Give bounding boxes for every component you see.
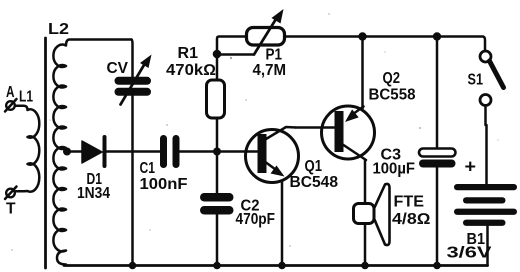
svg-text:S1: S1: [468, 72, 484, 89]
svg-text:R1: R1: [178, 45, 199, 62]
variable capacitor CV: [115, 40, 152, 266]
svg-text:100µF: 100µF: [373, 161, 416, 178]
node: C3 ground: [433, 262, 441, 270]
svg-text:CV: CV: [107, 60, 129, 77]
node: Q2 emitter rail: [358, 32, 366, 40]
battery B1: [454, 184, 517, 266]
capacitor C1: [160, 135, 213, 168]
svg-text:L1: L1: [19, 89, 33, 106]
transistor Q2: [322, 106, 375, 160]
switch S1: [480, 51, 504, 125]
node: C3 top rail: [433, 32, 441, 40]
svg-text:T: T: [6, 201, 16, 218]
svg-text:100nF: 100nF: [140, 176, 188, 193]
terminal T: [5, 187, 17, 200]
capacitor C3: [419, 37, 456, 266]
transistor Q1: [246, 127, 299, 183]
svg-text:Q1: Q1: [305, 158, 323, 175]
node: L2 tap: [63, 148, 71, 156]
svg-text:4/8Ω: 4/8Ω: [392, 211, 431, 228]
node: speaker ground: [361, 262, 369, 270]
resistor R1: [207, 54, 225, 148]
wire: Q1 emitter to ground: [281, 181, 284, 266]
top rail: [285, 37, 486, 52]
svg-text:Q2: Q2: [383, 70, 401, 87]
speaker FTE: [354, 184, 390, 266]
wire: junction up to rail: [217, 37, 247, 55]
wire: base of Q1: [221, 150, 257, 153]
svg-text:BC558: BC558: [369, 87, 416, 104]
potentiometer P1: [247, 9, 285, 55]
node: R1 base junction: [213, 148, 221, 156]
svg-text:470kΩ: 470kΩ: [166, 62, 216, 79]
wire: wiper return: [217, 53, 254, 56]
svg-text:+: +: [465, 157, 477, 177]
transformer core: [44, 38, 47, 268]
wire: Q2 collector down: [364, 160, 367, 205]
svg-text:A: A: [6, 84, 15, 101]
bottom rail: [64, 264, 488, 267]
diode D1: [70, 137, 160, 166]
svg-text:P1: P1: [266, 47, 283, 64]
svg-text:3/6V: 3/6V: [447, 245, 493, 262]
wire: switch to battery: [485, 125, 488, 184]
wire: Q2 emitter to rail: [361, 37, 364, 109]
svg-text:4,7M: 4,7M: [253, 62, 287, 79]
terminal A: [5, 99, 17, 112]
node: R1/P1 junction: [213, 50, 222, 59]
node: CV ground: [129, 262, 137, 270]
wire: Q1 collector to Q2 base: [296, 126, 334, 129]
svg-text:470pF: 470pF: [236, 211, 276, 228]
node: emitter ground: [278, 262, 286, 270]
svg-text:BC548: BC548: [290, 174, 339, 191]
tuning coil L2: [53, 40, 131, 265]
svg-text:L2: L2: [48, 21, 69, 38]
svg-text:1N34: 1N34: [77, 185, 110, 202]
node: C2 ground: [213, 262, 221, 270]
svg-text:FTE: FTE: [394, 194, 425, 211]
capacitor C2: [200, 155, 234, 266]
antenna coil L1: [16, 106, 40, 192]
svg-text:C1: C1: [140, 160, 156, 177]
